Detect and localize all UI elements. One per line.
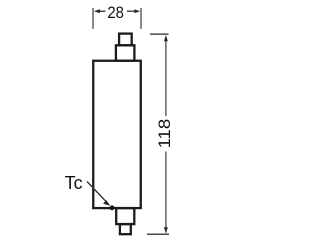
dimension 28: left arrow — [99, 10, 106, 12]
lamp body — [93, 61, 141, 208]
dimension 118: down arrow — [164, 227, 168, 233]
dimension 28: right tick — [140, 8, 142, 29]
dimension 118: bottom extension line — [147, 233, 169, 235]
top pin — [119, 34, 132, 46]
dimension 118: up arrow — [164, 35, 168, 41]
dimension 118: vertical line lower segment — [165, 152, 167, 229]
svg-text:28: 28 — [107, 3, 124, 22]
svg-text:118: 118 — [155, 119, 174, 149]
Tc leader arrow — [87, 182, 106, 202]
svg-text:Tc: Tc — [65, 173, 83, 193]
dimension 28: right arrow — [127, 10, 135, 12]
dimension 118: top extension line — [150, 33, 169, 35]
bottom cap — [116, 208, 134, 224]
dimension 118: vertical line upper segment — [165, 40, 167, 116]
bottom pin — [120, 224, 131, 234]
top cap — [116, 45, 134, 60]
Tc measurement point dot — [110, 205, 115, 210]
dimension 28: left tick — [92, 8, 94, 29]
